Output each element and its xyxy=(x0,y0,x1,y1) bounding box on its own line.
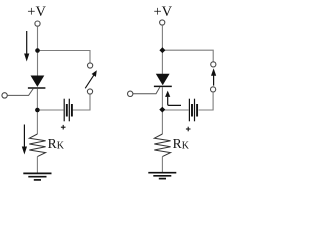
svg-text:+V: +V xyxy=(153,4,172,20)
svg-text:K: K xyxy=(57,141,65,152)
svg-text:+V: +V xyxy=(27,4,46,20)
svg-text:R: R xyxy=(173,136,182,151)
svg-text:K: K xyxy=(182,141,190,152)
svg-text:R: R xyxy=(48,136,57,151)
